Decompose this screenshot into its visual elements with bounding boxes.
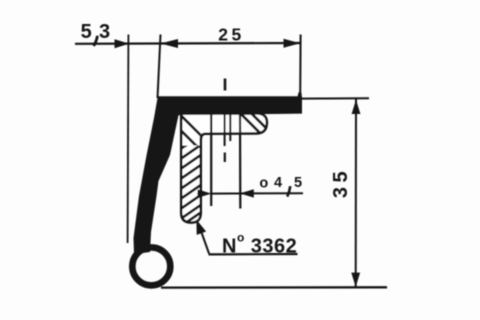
center line dash [224,153,226,163]
wire top dimension line [75,42,300,45]
svg-text:o: o [259,175,268,191]
svg-text:25: 25 [218,24,244,44]
wire 35 top extension line [302,97,369,99]
arrowhead 5,3 left (points right at x=128.5) [115,39,130,48]
svg-text:5: 5 [294,175,302,191]
hole right edge / extension line x=240 [239,113,242,209]
hatching cap (\ direction, clipped) [174,110,270,149]
svg-text:3: 3 [99,21,110,43]
wire diameter dimension line [211,192,303,194]
svg-text:No3362: No3362 [222,230,297,257]
extension line x=128 (left, runs down to bulb tangent) [127,35,130,244]
arrowhead 25 right (points right at x=300) [284,39,301,48]
leader line [199,224,210,254]
arrowhead dia left (points right at x=211) [198,189,212,197]
svg-text:5: 5 [81,21,92,43]
svg-text:35: 35 [330,167,352,198]
junction blob at stem [197,190,203,196]
hatched insert: white fill [181,113,267,222]
short line x=230 [229,114,231,141]
arrowhead 35 up [352,100,361,114]
profile top bar and diagonal leg (solid black) [134,96,303,254]
wire bottom base line [161,286,387,289]
center line x=225 below bar [224,114,226,146]
arrowhead shared at x=160 (points left) [161,39,179,48]
hatching stem (/ direction, clipped) [179,135,202,228]
wire 35 dimension line [355,99,357,287]
arrowhead 35 down [351,273,360,287]
label dia 4,5 [287,186,290,196]
extension line x=160 [158,35,161,99]
arrowhead dia right (points left at x=240) [240,189,254,197]
center tick above bar [224,79,227,91]
profile bottom bulb (ring) [132,247,170,285]
ink blob at bar top-right corner [298,92,302,98]
hole left edge / extension line x=211 [210,113,212,206]
insert outline [181,113,267,222]
label underline [209,253,298,256]
leader arrowhead at stem bottom [196,220,206,235]
svg-text:4: 4 [274,175,282,191]
hole white band in cap [213,115,239,135]
extension line x=300.5 [299,35,301,97]
